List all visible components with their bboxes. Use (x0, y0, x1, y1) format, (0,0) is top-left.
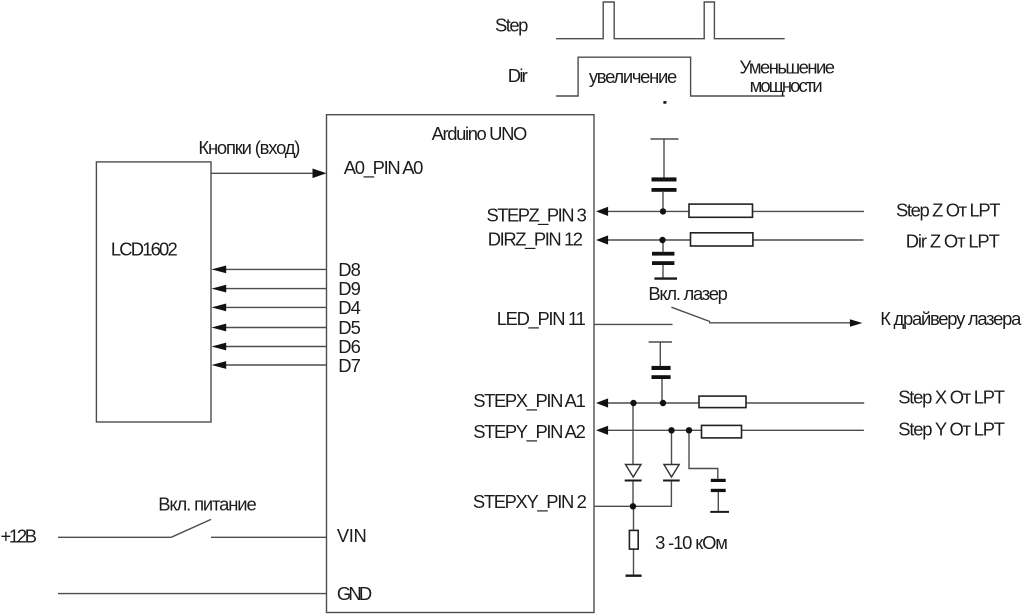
svg-text:Кнопки (вход): Кнопки (вход) (198, 137, 300, 158)
svg-text:Step Y От LPT: Step Y От LPT (898, 418, 1005, 439)
diode D2 cathode bar (663, 480, 680, 482)
svg-text:D9: D9 (338, 278, 361, 299)
wire STEPX left (606, 402, 699, 404)
resistor R5 bottom lead (633, 549, 635, 574)
junction node STEPY right (686, 427, 692, 433)
capacitor C1 plates (652, 177, 677, 181)
capacitor C4 plates (711, 479, 726, 482)
arrowhead D8 (212, 266, 227, 274)
capacitor C2 ground bar (654, 277, 677, 279)
svg-text:STEPZ_PIN 3: STEPZ_PIN 3 (487, 205, 587, 227)
arrowhead A0 into Arduino (313, 169, 327, 179)
wire STEPZ right (753, 210, 865, 212)
junction node STEPY left (668, 427, 674, 433)
svg-text:GND: GND (337, 583, 372, 604)
capacitor C3 top bar (649, 341, 672, 343)
LCD1602 box (96, 162, 211, 422)
wire D6 (224, 346, 327, 348)
wire DIRZ right (753, 239, 864, 241)
capacitor C3 top lead (659, 342, 661, 366)
diode D1 triangle (626, 465, 642, 478)
wire STEPZ left (606, 210, 689, 212)
resistor R1 STEPZ (689, 204, 753, 217)
arrowhead STEPY (596, 426, 608, 435)
svg-text:Step X От LPT: Step X От LPT (898, 386, 1005, 407)
diode D1 cathode lead (632, 482, 634, 507)
wire D7 (224, 364, 327, 366)
wire GND (58, 593, 327, 595)
svg-text:Dir Z От LPT: Dir Z От LPT (906, 230, 1000, 251)
capacitor C1 top bar (651, 138, 679, 140)
wire Dir waveform (556, 57, 785, 96)
svg-text:STEPX_PIN A1: STEPX_PIN A1 (473, 390, 586, 412)
diode D2 triangle (664, 465, 679, 478)
svg-text:Step Z От LPT: Step Z От LPT (896, 199, 1001, 220)
arrowhead D6 (212, 343, 227, 351)
capacitor C1 top lead (663, 139, 665, 178)
svg-text:D5: D5 (338, 317, 361, 338)
wire D9 (224, 288, 327, 290)
svg-text:Вкл. питание: Вкл. питание (158, 493, 257, 514)
capacitor C2 top lead (662, 241, 664, 252)
wire Step waveform (556, 2, 785, 39)
junction node STEPX right (660, 400, 666, 406)
capacitor C4 ground bar (710, 511, 729, 513)
svg-text:Dir: Dir (508, 65, 528, 86)
ground bar R5 (626, 575, 642, 577)
wire DIRZ left (606, 239, 691, 241)
svg-text:D8: D8 (338, 259, 361, 280)
arrowhead STEPZ (596, 207, 608, 216)
diode D2 cathode lead (670, 482, 672, 507)
svg-text:D4: D4 (338, 297, 361, 318)
capacitor C1 bottom lead (662, 192, 664, 211)
wire +12V to switch (58, 536, 171, 538)
wire STEPX right (746, 402, 864, 404)
switch S1 power blade (171, 519, 211, 537)
svg-text:A0_PIN A0: A0_PIN A0 (344, 157, 424, 179)
svg-text:STEPXY_PIN 2: STEPXY_PIN 2 (473, 491, 587, 513)
wire to laser driver (709, 322, 851, 324)
arrowhead D5 (212, 324, 227, 332)
svg-text:D6: D6 (338, 336, 361, 357)
svg-text:LCD1602: LCD1602 (111, 239, 178, 260)
svg-text:3 -10 кОм: 3 -10 кОм (655, 532, 728, 553)
junction node STEPX left (630, 400, 636, 406)
wire D4 (224, 306, 327, 308)
arrowhead DIRZ (596, 235, 608, 244)
wire STEPY left (606, 429, 702, 431)
junction node on DIRZ (659, 237, 665, 243)
diode D1 anode lead (632, 403, 634, 465)
resistor R4 STEPY (702, 425, 742, 438)
svg-text:Step: Step (495, 15, 528, 36)
capacitor C3 plates (652, 366, 671, 370)
resistor R5 pull-down 3-10k (629, 530, 638, 549)
svg-text:+12В: +12В (1, 526, 38, 547)
svg-text:Вкл. лазер: Вкл. лазер (648, 283, 728, 304)
capacitor C4 bottom lead (717, 492, 719, 511)
switch S2 laser blade (671, 307, 710, 321)
wire D5 (224, 327, 327, 329)
wire STEPXY (595, 505, 673, 507)
wire STEPY right (742, 429, 864, 431)
svg-text:мощности: мощности (750, 75, 823, 96)
resistor R3 STEPX (699, 396, 746, 408)
svg-text:DIRZ_PIN 12: DIRZ_PIN 12 (488, 229, 583, 251)
arrowhead D9 (212, 285, 227, 293)
arrowhead D7 (212, 361, 227, 369)
wire LED_PIN 11 (595, 323, 673, 325)
svg-text:LED_PIN 11: LED_PIN 11 (497, 308, 586, 330)
capacitor C2 plates (652, 252, 674, 256)
svg-text:STEPY_PIN A2: STEPY_PIN A2 (473, 421, 586, 443)
diode D1 cathode bar (625, 480, 642, 482)
dash mark under Dir waveform (663, 101, 666, 104)
resistor R2 DIRZ (691, 233, 753, 246)
junction node on STEPZ (660, 208, 666, 214)
svg-text:К драйверу лазера: К драйверу лазера (880, 308, 1022, 329)
junction node STEPXY (630, 503, 636, 509)
resistor R5 top lead (633, 506, 635, 530)
svg-text:D7: D7 (338, 355, 361, 376)
wire A0 buttons (211, 172, 314, 174)
Arduino UNO box U1 (327, 115, 595, 613)
svg-text:Arduino UNO: Arduino UNO (432, 123, 528, 144)
diode D2 anode lead (671, 430, 673, 464)
capacitor C2 bottom lead (662, 265, 664, 278)
arrowhead to laser driver (850, 319, 863, 327)
arrowhead D4 (212, 304, 227, 312)
wire D8 (224, 268, 327, 270)
svg-text:увеличение: увеличение (589, 66, 677, 87)
wire switch to VIN (211, 536, 327, 538)
capacitor C3 bottom lead (661, 379, 663, 401)
arrowhead STEPX (596, 398, 608, 407)
svg-text:VIN: VIN (337, 525, 367, 546)
capacitor C4 lead from STEPY node (689, 432, 718, 479)
